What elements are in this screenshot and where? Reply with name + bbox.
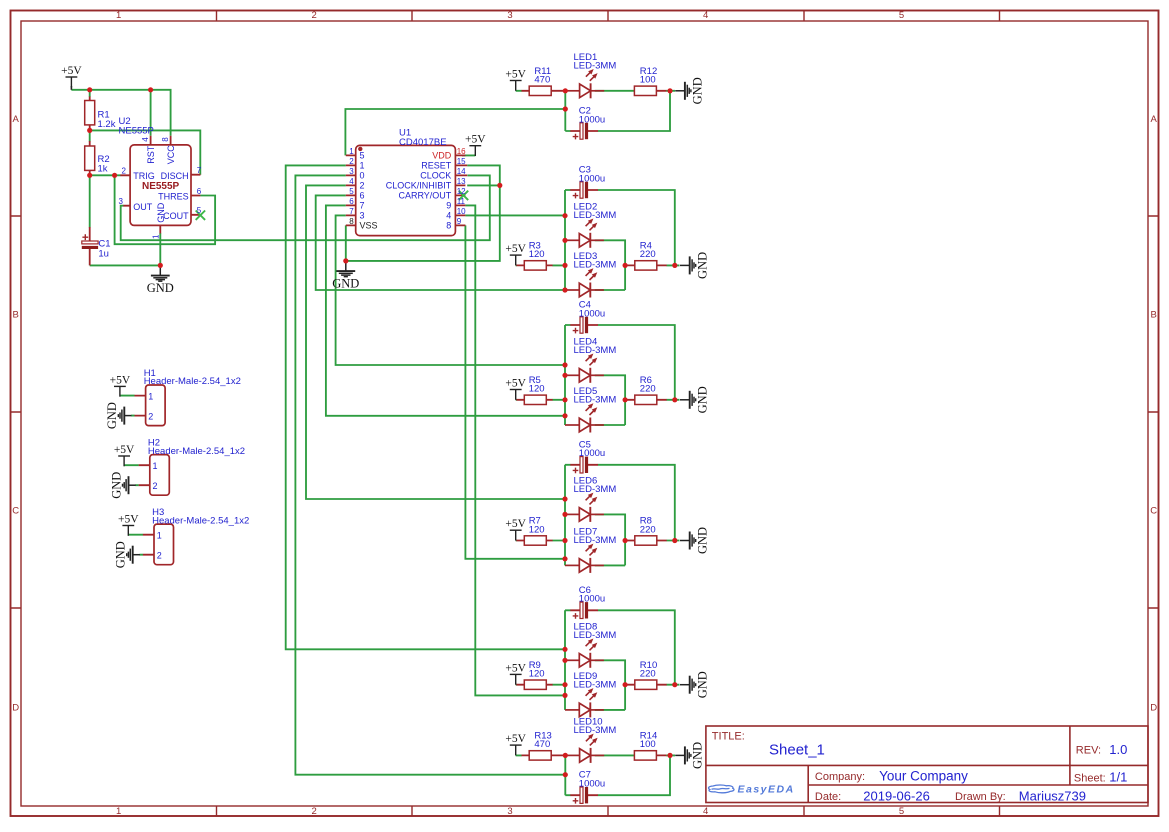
svg-text:10: 10	[457, 207, 466, 216]
svg-text:2: 2	[148, 411, 153, 421]
svg-text:D: D	[1150, 702, 1157, 713]
svg-text:120: 120	[529, 249, 545, 260]
svg-text:THRES: THRES	[158, 191, 189, 201]
svg-text:LED-3MM: LED-3MM	[574, 61, 617, 72]
svg-text:B: B	[13, 310, 19, 321]
svg-text:1: 1	[152, 234, 161, 239]
svg-text:+5V: +5V	[114, 444, 135, 456]
svg-text:TITLE:: TITLE:	[712, 730, 745, 742]
svg-text:2: 2	[157, 550, 162, 560]
svg-text:220: 220	[640, 524, 656, 535]
svg-text:1000u: 1000u	[579, 114, 605, 125]
svg-text:1: 1	[349, 147, 354, 156]
svg-text:5: 5	[899, 806, 904, 817]
svg-text:470: 470	[534, 75, 550, 86]
svg-text:CD4017BE: CD4017BE	[399, 137, 447, 148]
svg-text:1.0: 1.0	[1109, 742, 1127, 757]
svg-text:A: A	[1151, 114, 1158, 125]
svg-text:VSS: VSS	[360, 221, 378, 231]
svg-text:1.2k: 1.2k	[98, 119, 116, 130]
svg-text:1: 1	[360, 161, 365, 171]
svg-text:8: 8	[446, 221, 451, 231]
svg-text:1000u: 1000u	[579, 594, 605, 605]
svg-text:LED-3MM: LED-3MM	[574, 630, 617, 641]
svg-text:120: 120	[529, 669, 545, 680]
svg-text:0: 0	[360, 171, 365, 181]
svg-text:1k: 1k	[98, 164, 108, 175]
svg-text:OUT: OUT	[133, 202, 153, 212]
svg-text:13: 13	[457, 177, 466, 186]
svg-text:Header-Male-2.54_1x2: Header-Male-2.54_1x2	[148, 446, 245, 457]
svg-text:REV:: REV:	[1076, 744, 1101, 756]
svg-text:2: 2	[153, 481, 158, 491]
svg-text:C: C	[12, 505, 19, 516]
svg-text:11: 11	[457, 197, 466, 206]
svg-text:100: 100	[640, 739, 656, 750]
svg-text:12: 12	[457, 187, 466, 196]
svg-text:100: 100	[640, 75, 656, 86]
svg-text:220: 220	[640, 669, 656, 680]
svg-text:+5V: +5V	[118, 514, 139, 526]
svg-text:GND: GND	[147, 281, 174, 295]
svg-text:A: A	[13, 114, 20, 125]
svg-text:LED-3MM: LED-3MM	[574, 680, 617, 691]
svg-text:2019-06-26: 2019-06-26	[863, 788, 930, 803]
svg-text:8: 8	[349, 217, 354, 226]
svg-text:GND: GND	[691, 742, 705, 769]
svg-text:VCC: VCC	[166, 145, 176, 165]
svg-text:GND: GND	[114, 541, 128, 568]
svg-text:+5V: +5V	[61, 65, 82, 77]
svg-text:3: 3	[507, 806, 512, 817]
svg-text:1000u: 1000u	[579, 308, 605, 319]
svg-text:3: 3	[360, 211, 365, 221]
svg-text:1u: 1u	[98, 248, 109, 259]
svg-text:4: 4	[141, 137, 150, 142]
svg-text:LED-3MM: LED-3MM	[574, 395, 617, 406]
svg-text:4: 4	[703, 10, 708, 21]
svg-text:GND: GND	[105, 402, 119, 429]
svg-text:9: 9	[446, 201, 451, 211]
svg-text:GND: GND	[109, 472, 123, 499]
svg-text:2: 2	[312, 806, 317, 817]
svg-text:CLOCK: CLOCK	[420, 171, 451, 181]
svg-text:LED-3MM: LED-3MM	[574, 725, 617, 736]
svg-text:GND: GND	[696, 386, 710, 413]
svg-text:9: 9	[457, 217, 462, 226]
svg-text:8: 8	[161, 137, 170, 142]
svg-text:2: 2	[312, 10, 317, 21]
svg-text:B: B	[1151, 310, 1157, 321]
svg-text:GND: GND	[696, 671, 710, 698]
svg-text:3: 3	[349, 167, 354, 176]
svg-text:2: 2	[360, 181, 365, 191]
svg-text:NE555P: NE555P	[142, 181, 180, 192]
svg-text:1: 1	[148, 391, 153, 401]
svg-text:RESET: RESET	[421, 161, 452, 171]
svg-text:GND: GND	[332, 277, 359, 291]
svg-text:+5V: +5V	[465, 134, 486, 146]
svg-text:Company:: Company:	[815, 771, 865, 783]
svg-text:1: 1	[116, 10, 121, 21]
svg-text:6: 6	[349, 197, 354, 206]
svg-text:5: 5	[899, 10, 904, 21]
svg-text:LED-3MM: LED-3MM	[574, 345, 617, 356]
svg-text:470: 470	[534, 739, 550, 750]
svg-text:Date:: Date:	[815, 791, 841, 803]
svg-text:Sheet_1: Sheet_1	[769, 742, 825, 759]
svg-text:VDD: VDD	[432, 151, 452, 161]
svg-text:Drawn By:: Drawn By:	[955, 791, 1006, 803]
svg-text:1000u: 1000u	[579, 779, 605, 790]
svg-text:GND: GND	[691, 77, 705, 104]
svg-text:3: 3	[507, 10, 512, 21]
svg-text:LED-3MM: LED-3MM	[574, 260, 617, 271]
svg-text:120: 120	[529, 524, 545, 535]
svg-text:7: 7	[197, 166, 202, 175]
svg-text:3: 3	[119, 197, 124, 206]
svg-text:+5V: +5V	[505, 662, 526, 674]
svg-text:+5V: +5V	[505, 378, 526, 390]
svg-text:220: 220	[640, 384, 656, 395]
svg-text:Header-Male-2.54_1x2: Header-Male-2.54_1x2	[144, 376, 241, 387]
svg-text:CLOCK/INHIBIT: CLOCK/INHIBIT	[386, 181, 452, 191]
svg-text:16: 16	[457, 147, 466, 156]
svg-text:NE555P: NE555P	[119, 126, 154, 137]
svg-text:4: 4	[349, 177, 354, 186]
svg-text:GND: GND	[696, 527, 710, 554]
svg-text:+5V: +5V	[505, 733, 526, 745]
svg-text:1: 1	[116, 806, 121, 817]
svg-text:RST: RST	[146, 145, 156, 164]
svg-text:COUT: COUT	[163, 211, 189, 221]
svg-text:2: 2	[349, 157, 354, 166]
svg-text:LED-3MM: LED-3MM	[574, 484, 617, 495]
svg-text:Your Company: Your Company	[879, 769, 968, 784]
svg-text:15: 15	[457, 157, 466, 166]
svg-text:1000u: 1000u	[579, 173, 605, 184]
svg-text:Sheet:: Sheet:	[1074, 773, 1106, 785]
svg-text:1: 1	[153, 461, 158, 471]
svg-text:+5V: +5V	[505, 518, 526, 530]
svg-text:4: 4	[703, 806, 708, 817]
svg-text:+5V: +5V	[505, 69, 526, 81]
svg-text:4: 4	[446, 211, 451, 221]
svg-text:5: 5	[360, 151, 365, 161]
svg-text:D: D	[12, 702, 19, 713]
svg-text:1: 1	[157, 530, 162, 540]
svg-text:CARRY/OUT: CARRY/OUT	[398, 191, 451, 201]
svg-text:TRIG: TRIG	[133, 171, 155, 181]
svg-text:7: 7	[349, 207, 354, 216]
svg-text:GND: GND	[696, 252, 710, 279]
svg-text:5: 5	[197, 206, 202, 215]
svg-text:Header-Male-2.54_1x2: Header-Male-2.54_1x2	[152, 515, 249, 526]
svg-text:LED-3MM: LED-3MM	[574, 210, 617, 221]
svg-text:Mariusz739: Mariusz739	[1019, 788, 1086, 803]
svg-text:LED-3MM: LED-3MM	[574, 535, 617, 546]
svg-text:5: 5	[349, 187, 354, 196]
svg-text:220: 220	[640, 249, 656, 260]
svg-text:1000u: 1000u	[579, 448, 605, 459]
svg-text:+5V: +5V	[110, 374, 131, 386]
svg-text:+5V: +5V	[505, 243, 526, 255]
svg-text:C: C	[1150, 505, 1157, 516]
svg-text:120: 120	[529, 384, 545, 395]
svg-text:6: 6	[360, 191, 365, 201]
svg-text:7: 7	[360, 201, 365, 211]
svg-text:DISCH: DISCH	[161, 171, 189, 181]
svg-text:14: 14	[457, 167, 466, 176]
svg-text:1/1: 1/1	[1109, 770, 1127, 785]
svg-text:2: 2	[122, 167, 127, 176]
svg-text:6: 6	[197, 187, 202, 196]
svg-text:EasyEDA: EasyEDA	[738, 784, 795, 796]
